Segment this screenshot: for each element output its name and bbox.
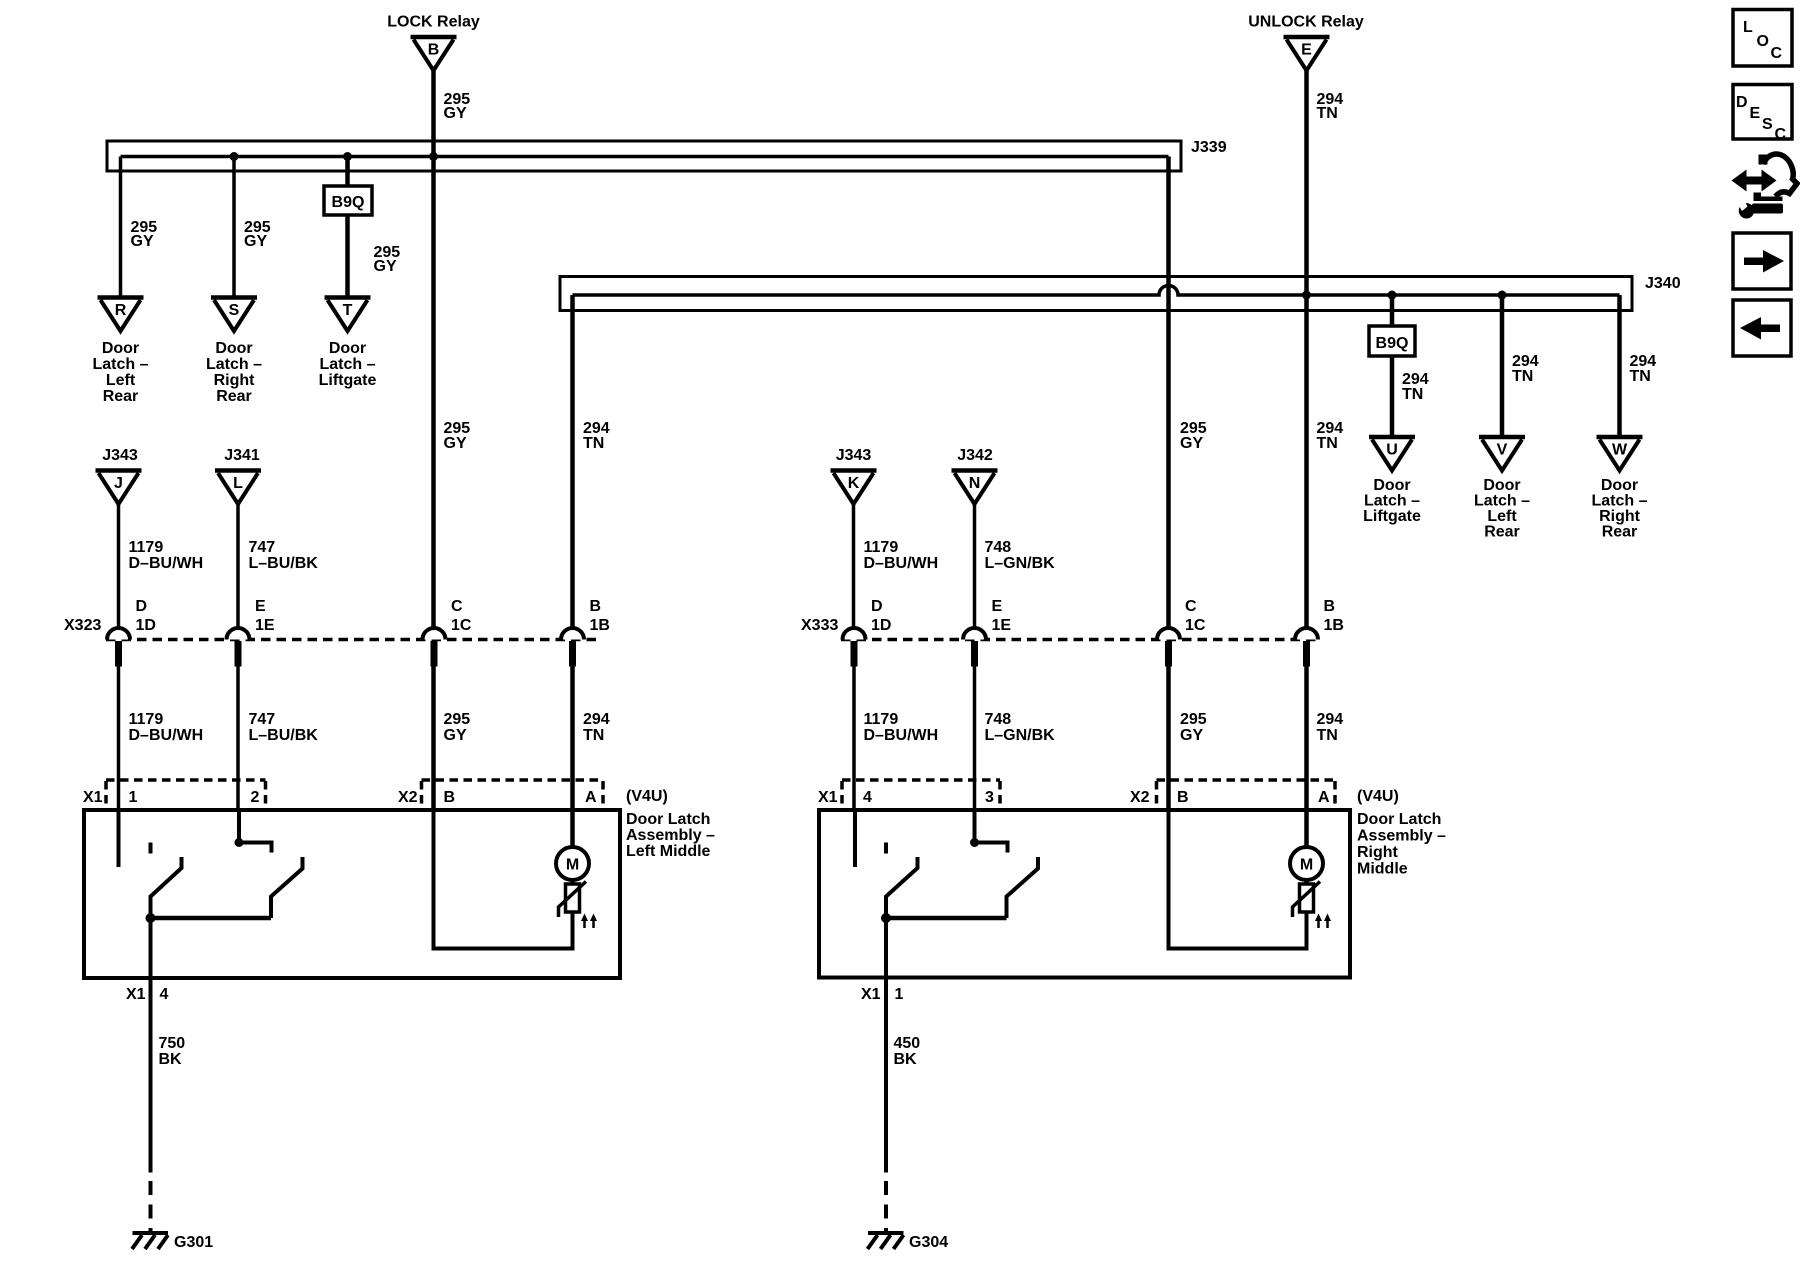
svg-text:Right: Right — [214, 372, 256, 389]
svg-text:294: 294 — [583, 711, 610, 728]
svg-text:G301: G301 — [174, 1234, 213, 1251]
wire 295 GY drop to T — [345, 157, 350, 298]
svg-text:Door: Door — [1601, 477, 1638, 494]
wire 747 L-BU/BK (X323 E to left latch pin 2) — [236, 667, 240, 811]
svg-text:747: 747 — [249, 539, 276, 556]
svg-text:X2: X2 — [398, 789, 418, 806]
svg-text:1179: 1179 — [129, 539, 164, 556]
wire 1179 D-BU/WH (X333 D to right latch pin 4) — [852, 667, 856, 811]
svg-text:747: 747 — [249, 711, 276, 728]
right door latch assembly box — [819, 810, 1350, 978]
junction at blade 1 base (right) — [881, 913, 891, 923]
svg-text:GY: GY — [444, 727, 467, 744]
wire 450 BK (right latch to G304) — [884, 978, 888, 1173]
junction at pin 2 contact — [235, 838, 244, 847]
svg-text:B: B — [590, 598, 602, 615]
ground wire inside right latch — [884, 918, 888, 978]
switch blade 1 (left latch) — [151, 857, 182, 918]
svg-text:1B: 1B — [1324, 617, 1344, 634]
navigation icon DESC — [1733, 85, 1792, 144]
pin C 1C of X333 — [1157, 598, 1206, 667]
switch blade 2 (left latch) — [271, 857, 303, 918]
svg-text:Left Middle: Left Middle — [626, 843, 711, 860]
svg-text:X1: X1 — [126, 986, 146, 1003]
svg-text:TN: TN — [1317, 105, 1338, 122]
svg-text:X1: X1 — [861, 986, 881, 1003]
svg-text:C: C — [1771, 45, 1783, 62]
svg-text:E: E — [255, 598, 266, 615]
connector X323 — [106, 638, 597, 642]
svg-text:BK: BK — [159, 1051, 183, 1068]
svg-text:748: 748 — [985, 711, 1012, 728]
svg-text:D: D — [871, 598, 883, 615]
wire pin 2 inside left latch — [237, 810, 241, 843]
wire 294 TN (X323 B to left latch pin A) — [570, 667, 575, 811]
junction at pin 3 contact — [970, 838, 979, 847]
svg-text:GY: GY — [444, 435, 467, 452]
svg-text:Latch –: Latch – — [206, 356, 262, 373]
svg-text:Left: Left — [106, 372, 136, 389]
pin B 1B of X323 — [561, 598, 610, 667]
junction of S drop on J339 — [230, 152, 239, 161]
connector triangle U — [1369, 437, 1415, 471]
svg-text:L–GN/BK: L–GN/BK — [985, 555, 1056, 572]
svg-text:D: D — [136, 598, 148, 615]
fixed contact from pin 2 — [239, 843, 272, 853]
svg-text:Right: Right — [1357, 844, 1399, 861]
svg-text:Latch –: Latch – — [319, 356, 375, 373]
svg-text:C: C — [451, 598, 463, 615]
svg-text:E: E — [992, 598, 1003, 615]
svg-text:D–BU/WH: D–BU/WH — [129, 727, 204, 744]
svg-text:D–BU/WH: D–BU/WH — [864, 727, 939, 744]
svg-text:D–BU/WH: D–BU/WH — [864, 555, 939, 572]
svg-text:TN: TN — [1317, 435, 1338, 452]
svg-text:L–BU/BK: L–BU/BK — [249, 555, 319, 572]
connector triangle J — [96, 471, 142, 505]
label (V4U) Door Latch Assembly Left Middle — [626, 788, 715, 860]
svg-text:Latch –: Latch – — [92, 356, 148, 373]
svg-text:Door: Door — [329, 340, 366, 357]
svg-text:1: 1 — [895, 986, 904, 1003]
wire 747 L-BU/BK from L to X323 pin E — [236, 501, 240, 629]
svg-text:B: B — [428, 42, 440, 59]
switch blade 1 (right latch) — [886, 857, 918, 918]
svg-text:Latch –: Latch – — [1591, 493, 1647, 510]
junction of V drop on J340 — [1498, 291, 1507, 300]
label Door Latch Liftgate (U) — [1363, 477, 1421, 525]
svg-text:J340: J340 — [1645, 275, 1681, 292]
svg-text:J343: J343 — [836, 447, 872, 464]
svg-text:D–BU/WH: D–BU/WH — [129, 555, 204, 572]
label Door Latch Left Rear (R) — [92, 340, 148, 405]
wire 294 TN drop to U — [1390, 295, 1395, 437]
svg-text:C: C — [1185, 598, 1197, 615]
svg-text:S: S — [229, 302, 240, 319]
ground G301 — [132, 1233, 168, 1249]
connector triangle B (LOCK Relay) — [411, 37, 457, 71]
svg-text:M: M — [1300, 857, 1313, 874]
svg-text:748: 748 — [985, 539, 1012, 556]
svg-text:1: 1 — [129, 789, 138, 806]
pin E 1E of X323 — [227, 598, 275, 667]
svg-text:TN: TN — [1402, 386, 1423, 403]
PTC thermistor (left latch) — [559, 882, 587, 918]
svg-text:B: B — [1177, 789, 1189, 806]
pin B 1B of X333 — [1295, 598, 1344, 667]
wire 295 GY drop to R — [119, 157, 123, 298]
svg-text:TN: TN — [583, 435, 604, 452]
svg-text:A: A — [1318, 789, 1330, 806]
svg-text:GY: GY — [1180, 727, 1203, 744]
wire 294 TN (X333 B to right latch pin A) — [1304, 667, 1309, 811]
label Door Latch Right Rear (S) — [206, 340, 262, 405]
svg-text:S: S — [1762, 116, 1773, 133]
svg-text:TN: TN — [1317, 727, 1338, 744]
svg-text:Door Latch: Door Latch — [1357, 811, 1441, 828]
connector X333 — [841, 638, 1320, 642]
svg-text:1D: 1D — [136, 617, 156, 634]
svg-text:L–BU/BK: L–BU/BK — [249, 727, 319, 744]
inline connector B9Q (right) — [1369, 326, 1415, 356]
svg-text:N: N — [969, 475, 981, 492]
svg-text:2: 2 — [251, 789, 260, 806]
connector X2 of left latch assembly — [422, 780, 604, 809]
svg-text:Rear: Rear — [1602, 524, 1638, 541]
svg-text:A: A — [585, 789, 597, 806]
svg-text:J339: J339 — [1191, 139, 1227, 156]
junction of E wire on J340 — [1302, 291, 1311, 300]
svg-text:TN: TN — [583, 727, 604, 744]
motor M (right latch) — [1290, 847, 1323, 880]
wire 294 TN drop to V — [1500, 295, 1505, 437]
wire 295 GY drop to S — [232, 157, 236, 298]
pin C 1C of X323 — [423, 598, 472, 667]
navigation icon forward — [1733, 233, 1791, 289]
svg-text:1D: 1D — [871, 617, 891, 634]
svg-text:Liftgate: Liftgate — [319, 372, 377, 389]
motor circuit wire (right latch pin B loop) — [1169, 810, 1307, 949]
svg-text:3: 3 — [985, 789, 994, 806]
wire pin A to motor (right latch) — [1304, 810, 1309, 884]
svg-text:Right: Right — [1599, 508, 1641, 525]
connector X2 of right latch assembly — [1157, 780, 1336, 809]
svg-text:Door: Door — [102, 340, 139, 357]
connector triangle S — [211, 298, 257, 332]
svg-text:294: 294 — [1317, 711, 1344, 728]
label Door Latch Left Rear (V) — [1474, 477, 1530, 541]
wire pin 4 inside right latch — [853, 810, 857, 867]
fixed contact (left latch lock switch) — [149, 843, 153, 854]
wire 1179 D-BU/WH from K to X333 pin D — [852, 501, 856, 629]
svg-text:Rear: Rear — [216, 388, 252, 405]
wire pin 1 inside left latch — [117, 810, 121, 867]
fixed contact from pin 3 — [975, 843, 1008, 853]
svg-text:Latch –: Latch – — [1364, 493, 1420, 510]
svg-text:D: D — [1736, 94, 1748, 111]
svg-text:1C: 1C — [451, 617, 472, 634]
svg-text:W: W — [1612, 442, 1628, 459]
svg-text:1E: 1E — [255, 617, 275, 634]
svg-text:UNLOCK Relay: UNLOCK Relay — [1248, 14, 1364, 31]
svg-text:E: E — [1750, 105, 1761, 122]
svg-text:GY: GY — [444, 105, 467, 122]
wire 294 TN drop to W — [1617, 295, 1622, 437]
splice pack J339 — [107, 141, 1181, 171]
svg-text:(V4U): (V4U) — [1357, 788, 1399, 805]
wire 294 TN from J340 left end to X323 pin B — [570, 295, 575, 629]
label Door Latch Liftgate (T) — [319, 340, 377, 389]
connector triangle T — [325, 298, 371, 332]
direction arrows (right motor) — [1315, 914, 1331, 929]
svg-text:B9Q: B9Q — [1376, 335, 1409, 352]
svg-text:L: L — [1743, 19, 1753, 36]
svg-text:Assembly –: Assembly – — [1357, 828, 1446, 845]
svg-text:L–GN/BK: L–GN/BK — [985, 727, 1056, 744]
svg-text:Rear: Rear — [1484, 524, 1520, 541]
wire 294 TN from UNLOCK relay E to X333 pin B — [1304, 67, 1309, 629]
svg-text:Assembly –: Assembly – — [626, 827, 715, 844]
pin D 1D of X323 — [107, 598, 156, 667]
diagnostic icon (arrows and wrench) — [1732, 154, 1798, 218]
svg-text:Door: Door — [1483, 477, 1520, 494]
fixed contact (right latch lock switch) — [884, 843, 888, 854]
label Door Latch Right Rear (W) — [1591, 477, 1647, 541]
svg-text:B: B — [1324, 598, 1336, 615]
svg-text:R: R — [115, 302, 127, 319]
svg-text:O: O — [1757, 33, 1769, 50]
svg-text:B9Q: B9Q — [332, 194, 365, 211]
junction of B wire on J339 — [429, 152, 438, 161]
pin E 1E of X333 — [963, 598, 1011, 667]
junction of T drop on J339 — [343, 152, 352, 161]
motor circuit wire (left latch pin B loop) — [434, 810, 573, 949]
connector triangle W — [1597, 437, 1643, 471]
svg-text:L: L — [233, 475, 243, 492]
svg-text:295: 295 — [1180, 711, 1207, 728]
svg-text:750: 750 — [159, 1035, 186, 1052]
PTC thermistor (right latch) — [1293, 882, 1321, 918]
junction at blade 1 base — [146, 913, 156, 923]
left door latch assembly box — [84, 810, 620, 978]
svg-text:Door: Door — [1373, 477, 1410, 494]
svg-text:J: J — [114, 475, 123, 492]
svg-text:Left: Left — [1487, 508, 1517, 525]
direction arrows (left motor) — [581, 914, 597, 929]
svg-text:E: E — [1301, 42, 1312, 59]
connector X1 of left latch assembly — [106, 780, 266, 809]
svg-text:X333: X333 — [801, 617, 838, 634]
ground G304 — [868, 1233, 904, 1249]
label (V4U) Door Latch Assembly Right Middle — [1357, 788, 1446, 878]
ground wire inside left latch — [149, 918, 153, 978]
svg-text:4: 4 — [160, 986, 169, 1003]
svg-text:1E: 1E — [992, 617, 1012, 634]
wire 1179 D-BU/WH from J to X323 pin D — [117, 501, 121, 629]
svg-text:LOCK Relay: LOCK Relay — [387, 14, 480, 31]
wire 748 L-GN/BK (X333 E to right latch pin 3) — [973, 667, 977, 811]
wire 748 L-GN/BK from N to X333 pin E — [973, 501, 977, 629]
splice pack J340 — [560, 277, 1632, 311]
svg-text:295: 295 — [444, 711, 471, 728]
motor M (left latch) — [556, 847, 589, 880]
dashed wire to G304 — [884, 1181, 888, 1233]
connector X1 of right latch assembly — [842, 780, 1000, 809]
svg-text:M: M — [566, 857, 579, 874]
svg-text:Rear: Rear — [103, 388, 139, 405]
common rail (right latch) — [886, 916, 1007, 921]
svg-text:B: B — [444, 789, 456, 806]
wire 295 GY (X333 C to right latch pin B) — [1166, 667, 1171, 811]
svg-text:X1: X1 — [818, 789, 838, 806]
svg-text:K: K — [848, 475, 860, 492]
svg-text:Door: Door — [215, 340, 252, 357]
common rail (left latch) — [151, 916, 272, 921]
svg-text:GY: GY — [244, 233, 267, 250]
connector triangle L — [215, 471, 261, 505]
svg-text:Liftgate: Liftgate — [1363, 508, 1421, 525]
svg-text:1179: 1179 — [864, 711, 899, 728]
svg-text:TN: TN — [1512, 368, 1533, 385]
svg-text:GY: GY — [1180, 435, 1203, 452]
svg-text:1179: 1179 — [864, 539, 899, 556]
svg-text:1179: 1179 — [129, 711, 164, 728]
svg-text:GY: GY — [374, 258, 397, 275]
navigation icon back — [1733, 300, 1791, 356]
switch blade 2 (right latch) — [1007, 857, 1039, 918]
wire 295 GY from LOCK relay B to X323 pin C — [431, 67, 436, 629]
connector triangle K — [831, 471, 877, 505]
wire 295 GY (X323 C to left latch pin B) — [431, 667, 436, 811]
svg-text:J342: J342 — [957, 447, 993, 464]
wire 750 BK (left latch to G301) — [149, 978, 153, 1173]
svg-text:Middle: Middle — [1357, 861, 1408, 878]
svg-text:(V4U): (V4U) — [626, 788, 668, 805]
wire 1179 D-BU/WH (X323 D to left latch pin 1) — [117, 667, 121, 811]
connector triangle V — [1479, 437, 1525, 471]
svg-text:U: U — [1386, 442, 1398, 459]
svg-text:BK: BK — [894, 1051, 918, 1068]
svg-text:C: C — [1775, 126, 1787, 143]
wire 295 GY from J339 right end to X333 pin C — [1166, 157, 1171, 629]
navigation icon LOC — [1733, 10, 1792, 67]
junction of U drop on J340 — [1388, 291, 1397, 300]
connector triangle E (UNLOCK Relay) — [1284, 37, 1330, 71]
svg-text:Latch –: Latch – — [1474, 493, 1530, 510]
svg-text:1B: 1B — [590, 617, 610, 634]
svg-text:1C: 1C — [1185, 617, 1206, 634]
svg-text:GY: GY — [131, 233, 154, 250]
svg-text:TN: TN — [1630, 368, 1651, 385]
svg-text:X2: X2 — [1130, 789, 1150, 806]
inline connector B9Q (left) — [324, 186, 372, 215]
connector triangle N — [952, 471, 998, 505]
dashed wire to G301 — [149, 1181, 153, 1233]
svg-text:J343: J343 — [102, 447, 138, 464]
wire pin 3 inside right latch — [973, 810, 977, 843]
svg-text:G304: G304 — [909, 1234, 948, 1251]
svg-text:X323: X323 — [64, 617, 101, 634]
svg-text:T: T — [343, 302, 353, 319]
svg-text:Door Latch: Door Latch — [626, 811, 710, 828]
connector triangle R — [98, 298, 144, 332]
svg-text:V: V — [1497, 442, 1508, 459]
svg-text:J341: J341 — [224, 447, 260, 464]
svg-text:450: 450 — [894, 1035, 921, 1052]
svg-text:X1: X1 — [83, 789, 103, 806]
wire pin A to motor (left latch) — [570, 810, 575, 884]
pin D 1D of X333 — [843, 598, 892, 667]
svg-text:4: 4 — [863, 789, 872, 806]
